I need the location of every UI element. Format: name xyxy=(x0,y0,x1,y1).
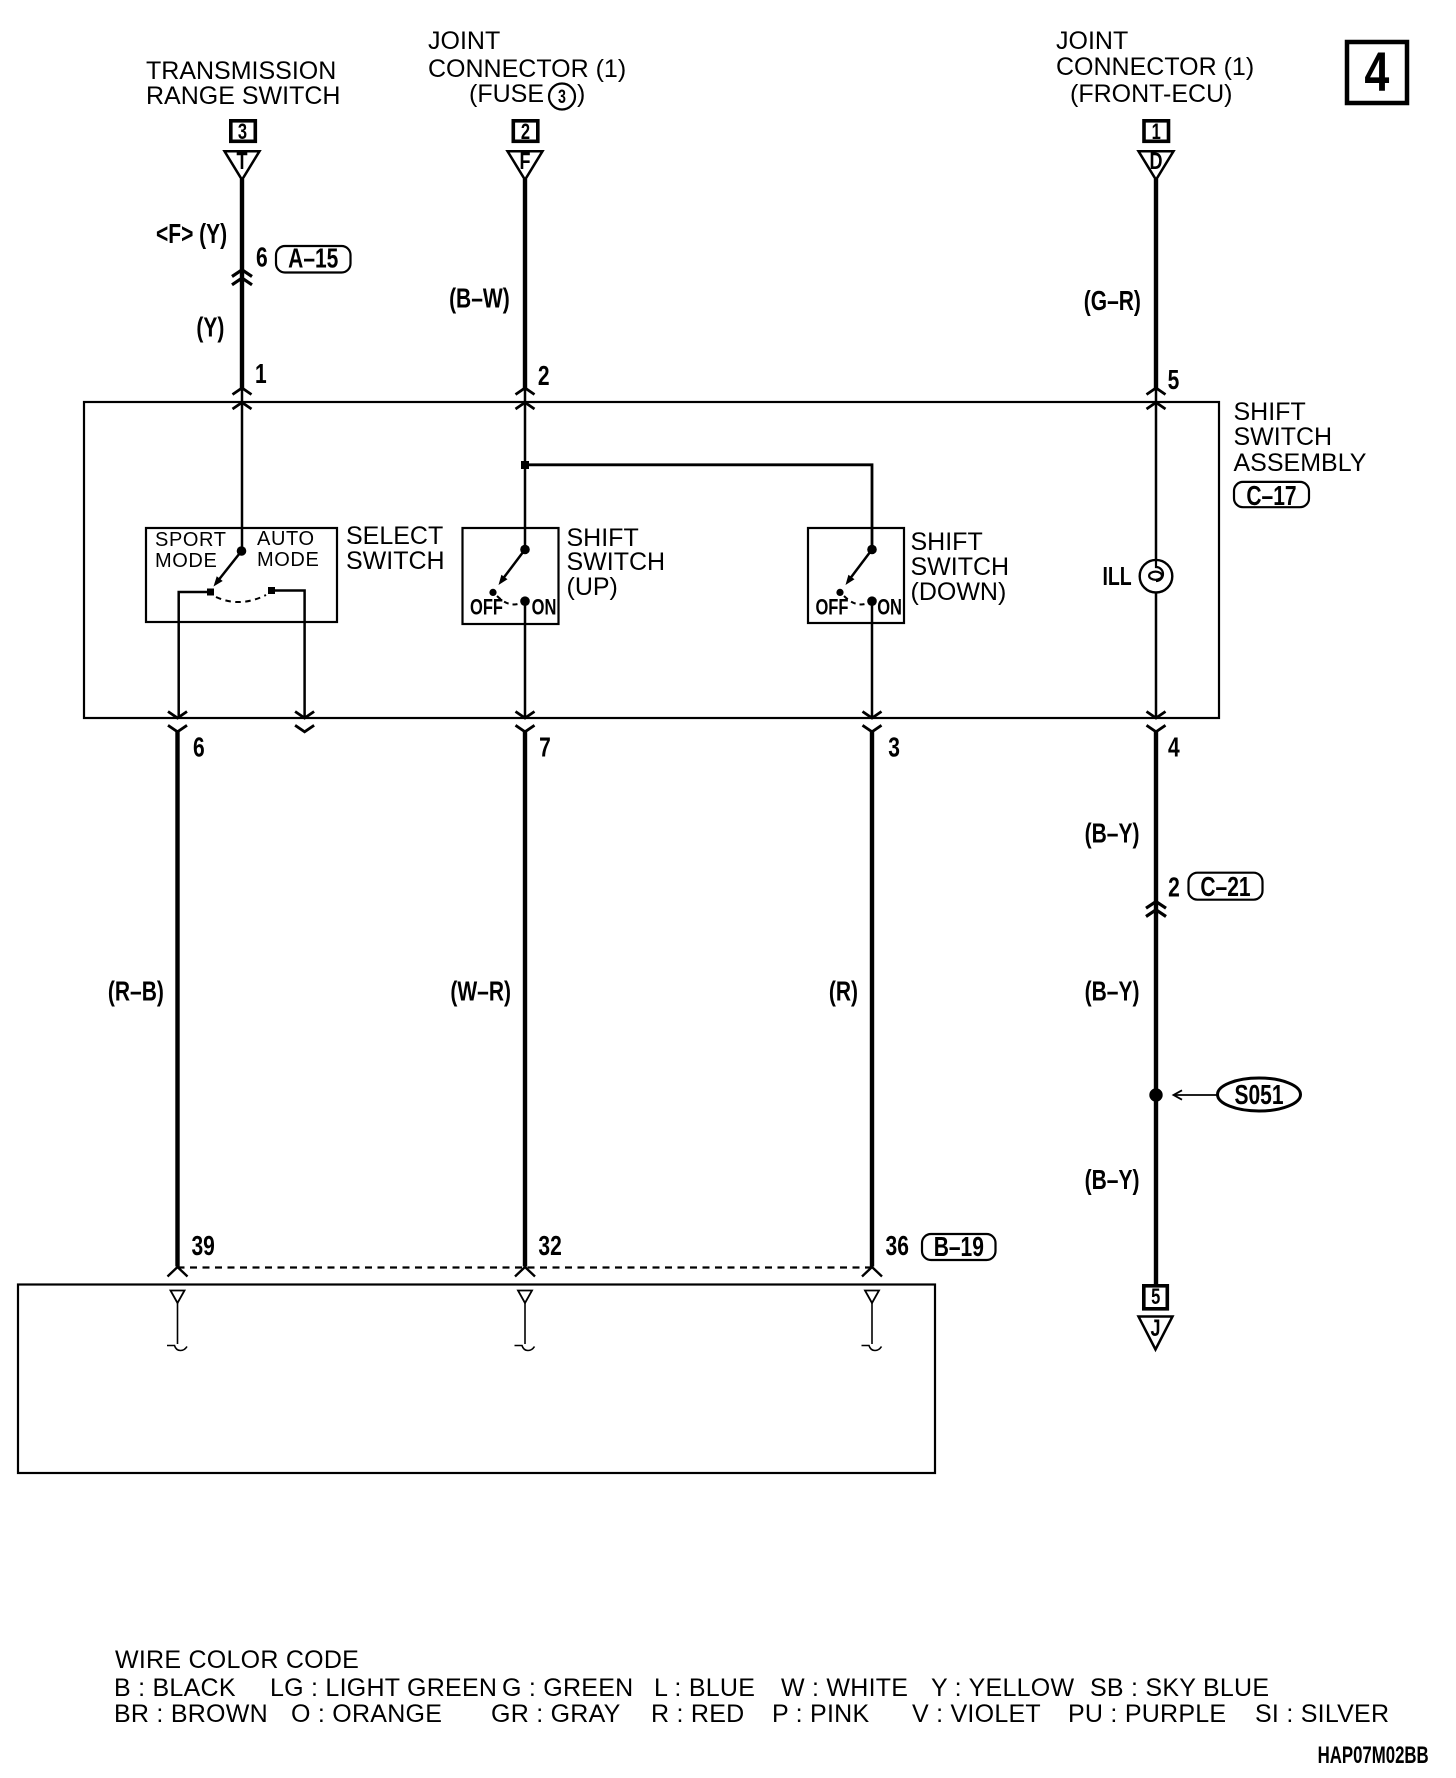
svg-text:(B–Y): (B–Y) xyxy=(1085,1165,1140,1196)
svg-text:ON: ON xyxy=(877,595,902,620)
svg-text:(R): (R) xyxy=(829,977,858,1008)
wire col4 thin into assembly xyxy=(1155,388,1158,560)
svg-text:2: 2 xyxy=(521,120,530,145)
header fuse close paren xyxy=(577,82,585,108)
svg-text:S051: S051 xyxy=(1235,1080,1284,1111)
svg-text:6: 6 xyxy=(256,243,268,274)
select switch auto contact xyxy=(268,587,275,594)
exit chevrons pin 6 xyxy=(168,712,187,732)
in-line connector chevrons A-15 xyxy=(232,270,252,285)
entry chevrons pin 5 xyxy=(1147,388,1166,409)
select switch common node dot xyxy=(237,546,247,556)
svg-text:6: 6 xyxy=(193,733,205,764)
connector box 5 (to joint connector J) xyxy=(1144,1285,1168,1310)
connector box 2 (joint connector fuse) xyxy=(513,120,538,145)
wire end arrow pin 39 xyxy=(168,1267,188,1277)
off-on labels xyxy=(470,595,902,620)
connector triangle J xyxy=(1139,1316,1173,1350)
auto contact lead wire xyxy=(272,591,305,719)
svg-text:36: 36 xyxy=(886,1231,909,1262)
terminal symbol pin 39 xyxy=(167,1291,187,1351)
svg-text:F: F xyxy=(520,149,531,175)
legend wire color code title xyxy=(115,1647,359,1673)
wire col1 thin into assembly xyxy=(241,388,244,551)
splice S051 pointer arrow xyxy=(1174,1090,1218,1099)
svg-text:(R–B): (R–B) xyxy=(108,977,164,1008)
legend row1 w white xyxy=(781,1675,908,1701)
legend row2 br brown xyxy=(114,1701,268,1727)
select switch sport contact xyxy=(207,589,214,596)
legend row2 si silver xyxy=(1255,1701,1389,1727)
exit chevrons pin 3 xyxy=(863,712,882,732)
select switch box xyxy=(146,528,337,622)
page number box 4 xyxy=(1347,40,1407,103)
legend row2 pu purple xyxy=(1068,1701,1226,1727)
svg-text:ILL: ILL xyxy=(1103,561,1132,590)
svg-text:4: 4 xyxy=(1168,733,1180,764)
connector box 3 (transmission range switch) xyxy=(231,120,256,145)
header fuse line xyxy=(469,82,544,108)
branch junction dot col2 xyxy=(521,461,529,469)
svg-text:3: 3 xyxy=(558,86,566,107)
connector triangle T xyxy=(225,149,260,180)
shift switch up moving contact arm xyxy=(495,550,525,588)
svg-text:1: 1 xyxy=(1152,120,1161,145)
wire pin4 inside assembly xyxy=(1155,592,1158,719)
svg-text:A–15: A–15 xyxy=(288,244,338,275)
shift switch down input dot xyxy=(867,545,877,555)
wire (B-W) from joint connector xyxy=(523,179,527,388)
svg-text:(Y): (Y) xyxy=(196,313,224,344)
svg-text:2: 2 xyxy=(1168,873,1180,904)
wire (B-Y) pin4 down xyxy=(1154,732,1158,1285)
branch wire to shift switch down xyxy=(525,465,872,549)
wire (G-R) from front-ecu joint connector xyxy=(1154,179,1158,388)
connector triangle D xyxy=(1139,149,1174,180)
wire (Y) from transmission range switch xyxy=(240,179,244,388)
dashed throw arc select switch xyxy=(216,595,266,602)
exit chevrons pin 4 xyxy=(1147,712,1166,732)
dashed link line to B-19 xyxy=(178,1266,873,1268)
svg-text:(B–Y): (B–Y) xyxy=(1085,819,1140,850)
shift switch up off contact xyxy=(489,589,496,596)
label shift switch down xyxy=(911,530,1010,605)
shift switch down on contact xyxy=(867,596,877,606)
wire pin7 inside assembly xyxy=(524,601,527,718)
label select switch xyxy=(346,524,445,575)
connector label frame C-17 xyxy=(1234,482,1309,507)
svg-text:B–19: B–19 xyxy=(934,1232,984,1263)
wire end arrow pin 36 xyxy=(862,1267,882,1277)
wire (R) pin3 to pin36 xyxy=(870,732,874,1267)
svg-text:4: 4 xyxy=(1364,40,1389,103)
svg-text:3: 3 xyxy=(238,120,247,145)
label auto mode xyxy=(257,529,319,570)
legend row1 g green xyxy=(502,1675,633,1701)
header joint connector front-ecu xyxy=(1056,28,1254,81)
svg-text:(W–R): (W–R) xyxy=(450,977,511,1008)
svg-text:(B–Y): (B–Y) xyxy=(1085,977,1140,1008)
ecu box B-19 xyxy=(18,1285,935,1474)
legend row1 b black xyxy=(114,1675,236,1701)
in-line connector chevrons C-21 xyxy=(1146,902,1166,917)
shift switch down moving contact arm xyxy=(842,550,872,588)
legend row1 y yellow xyxy=(931,1675,1074,1701)
legend row2 r red xyxy=(651,1701,744,1727)
svg-text:C–17: C–17 xyxy=(1246,481,1296,512)
svg-text:5: 5 xyxy=(1151,1285,1160,1310)
wire col2 thin into assembly xyxy=(524,388,527,549)
shift switch up input dot xyxy=(520,545,530,555)
svg-text:J: J xyxy=(1151,1316,1161,1342)
header joint connector fuse xyxy=(428,28,626,83)
exit chevrons auto mode branch xyxy=(295,712,314,732)
splice label ellipse S051 xyxy=(1218,1078,1301,1111)
wire end arrow pin 32 xyxy=(515,1267,535,1277)
svg-text:ON: ON xyxy=(532,595,557,620)
svg-text:C–21: C–21 xyxy=(1200,872,1250,903)
svg-text:OFF: OFF xyxy=(470,595,503,620)
label shift switch assembly xyxy=(1234,400,1367,477)
svg-text:OFF: OFF xyxy=(815,595,848,620)
dashed throw arc shift switch up xyxy=(497,596,521,604)
shift switch down box xyxy=(808,528,904,623)
svg-text:39: 39 xyxy=(191,1231,214,1262)
svg-text:HAP07M02BB: HAP07M02BB xyxy=(1318,1742,1429,1769)
svg-text:(G–R): (G–R) xyxy=(1084,286,1141,317)
shift switch assembly box C-17 xyxy=(84,402,1219,718)
connector box 1 (joint connector front-ecu) xyxy=(1144,120,1169,145)
legend row2 gr gray xyxy=(491,1701,621,1727)
legend row2 p pink xyxy=(772,1701,869,1727)
shift switch up on contact xyxy=(520,596,530,606)
header transmission range switch xyxy=(146,59,340,110)
svg-text:1: 1 xyxy=(255,359,267,390)
connector label frame B-19 xyxy=(922,1234,996,1260)
legend row2 v violet xyxy=(912,1701,1041,1727)
wire pin3 inside assembly xyxy=(871,601,874,718)
exit chevrons pin 7 xyxy=(516,712,535,732)
select switch moving contact arm xyxy=(211,551,242,589)
connector label frame A-15 xyxy=(276,246,351,273)
entry chevrons pin 1 xyxy=(233,388,252,409)
terminal symbol pin 36 xyxy=(862,1291,882,1351)
wire (W-R) pin7 to pin32 xyxy=(523,732,527,1267)
illumination lamp ILL xyxy=(1140,560,1173,593)
legend row1 sb sky blue xyxy=(1090,1675,1269,1701)
bold condensed wire labels xyxy=(108,219,1297,1263)
legend row1 lg light green xyxy=(270,1675,497,1701)
svg-text:5: 5 xyxy=(1168,365,1180,396)
svg-text:T: T xyxy=(237,149,248,175)
connector label frame C-21 xyxy=(1189,873,1263,900)
svg-text:3: 3 xyxy=(888,733,900,764)
wire (R-B) pin6 to pin39 xyxy=(175,732,179,1267)
terminal symbol pin 32 xyxy=(515,1291,535,1351)
label sport mode xyxy=(155,530,227,571)
shift switch down off contact xyxy=(836,589,843,596)
legend row2 o orange xyxy=(291,1701,442,1727)
svg-text:<F> (Y): <F> (Y) xyxy=(156,219,227,250)
dashed throw arc shift switch down xyxy=(844,596,868,604)
svg-text:7: 7 xyxy=(539,733,551,764)
svg-text:2: 2 xyxy=(538,361,550,392)
entry chevrons pin 2 xyxy=(516,388,535,409)
shift switch up box xyxy=(463,528,559,624)
svg-text:32: 32 xyxy=(538,1231,561,1262)
svg-text:D: D xyxy=(1149,149,1162,175)
sport contact lead wire xyxy=(179,592,211,718)
label shift switch up xyxy=(567,526,666,600)
header front-ecu line xyxy=(1070,82,1232,108)
legend row1 l blue xyxy=(654,1675,755,1701)
fuse circle 3 xyxy=(549,84,575,110)
svg-text:(B–W): (B–W) xyxy=(449,284,510,315)
connector triangle F xyxy=(508,149,543,180)
splice S051 dot xyxy=(1149,1088,1162,1101)
